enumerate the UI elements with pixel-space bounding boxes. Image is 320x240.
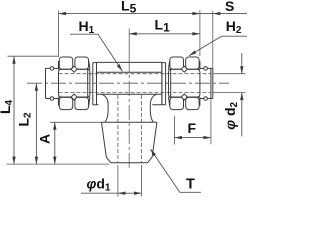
- body U1: [97, 62, 162, 104]
- leader T: [150, 149, 201, 192]
- wire bore hidden line bottom: [59, 92, 211, 94]
- nut right: band line top: [169, 68, 200, 70]
- body chamfer lines: [97, 72, 162, 94]
- arrow L2 down: [35, 157, 38, 165]
- nut right: diamond top: [181, 66, 187, 72]
- nut right: bottom band lobes: [186, 97, 199, 109]
- leader H2: [189, 36, 247, 56]
- dimension phi-d1 line: [81, 192, 142, 194]
- dimension A line: [54, 122, 56, 164]
- nut left: band line top: [59, 68, 90, 70]
- extension line right nut face: [199, 11, 201, 57]
- dimension L2 line: [35, 83, 37, 164]
- arrow L5 left: [59, 12, 67, 15]
- arrow L4 down: [12, 157, 15, 165]
- nut left: middle band faces: [59, 69, 90, 97]
- branch neck left profile: [102, 94, 109, 122]
- svg-text:A: A: [36, 134, 52, 144]
- washer right: [162, 63, 166, 105]
- arrow L2 up: [35, 83, 38, 91]
- dimension F line: [175, 137, 211, 139]
- nut right: middle band faces: [169, 69, 200, 97]
- extension A: [50, 121, 102, 123]
- extension L4 top: [8, 55, 59, 57]
- arrow phi-d1 left: [118, 192, 126, 195]
- svg-text:S: S: [225, 0, 234, 14]
- extension F left: [174, 116, 176, 145]
- centerline horizontal axis: [27, 82, 229, 84]
- branch neck right profile: [150, 94, 157, 122]
- extension line center: [128, 29, 130, 58]
- nut right: diamond bottom: [181, 94, 187, 100]
- dimension L4 line: [13, 56, 15, 164]
- leader H1: [70, 34, 122, 71]
- arrow F right: [203, 136, 211, 139]
- extension line right tube end: [212, 11, 214, 68]
- thread bore dashes: [118, 95, 142, 163]
- arrow A down: [53, 157, 56, 165]
- nut left: band line bottom: [59, 96, 90, 98]
- svg-text:L5: L5: [121, 0, 137, 16]
- centerline vertical axis: [128, 57, 130, 171]
- dimension L1 line: [129, 33, 200, 35]
- nut H2 right: top band lobes: [186, 57, 199, 69]
- arrow phi-d2 down: [240, 66, 243, 74]
- nut left: diamond bottom: [71, 94, 77, 100]
- extension F right: [210, 99, 212, 144]
- dimension phi-d2 line: [241, 53, 243, 136]
- washer left: [93, 63, 97, 105]
- arrow T: [150, 149, 156, 156]
- arrow A up: [53, 122, 56, 130]
- nut left: diamond top: [71, 66, 77, 72]
- arrow S: [213, 12, 221, 15]
- thread T shoulder: [102, 121, 157, 123]
- wire bore hidden line top: [59, 73, 211, 75]
- svg-text:T: T: [186, 176, 195, 192]
- nut left: inner facet line: [87, 69, 89, 97]
- nut left: bottom band lobes: [59, 97, 72, 109]
- extension phi-d1 lines: [118, 165, 142, 197]
- extension phi-d2 lines: [213, 74, 246, 93]
- dimension L5/S top line: [59, 13, 248, 15]
- arrow phi-d1 right: [134, 192, 142, 195]
- arrow F left: [175, 136, 183, 139]
- nut H1 left: top band lobes: [59, 57, 72, 69]
- arrow L1 left: [129, 32, 137, 35]
- arrow H2: [189, 51, 196, 56]
- right tube: [200, 68, 213, 98]
- nut right: inner facet line: [170, 69, 172, 97]
- thread sides: [102, 122, 157, 163]
- thread bottom: [111, 162, 148, 164]
- svg-text:F: F: [188, 120, 197, 136]
- arrow H1: [117, 64, 123, 71]
- arrow L5 right: [192, 12, 200, 15]
- extension line left nut face: [58, 11, 60, 58]
- left tube: [46, 68, 59, 98]
- nut right: band line bottom: [169, 96, 200, 98]
- arrow L1 right: [192, 32, 200, 35]
- arrow L4 up: [12, 56, 15, 64]
- arrow phi-d2 up: [240, 93, 243, 101]
- extension bottom reference: [6, 163, 109, 165]
